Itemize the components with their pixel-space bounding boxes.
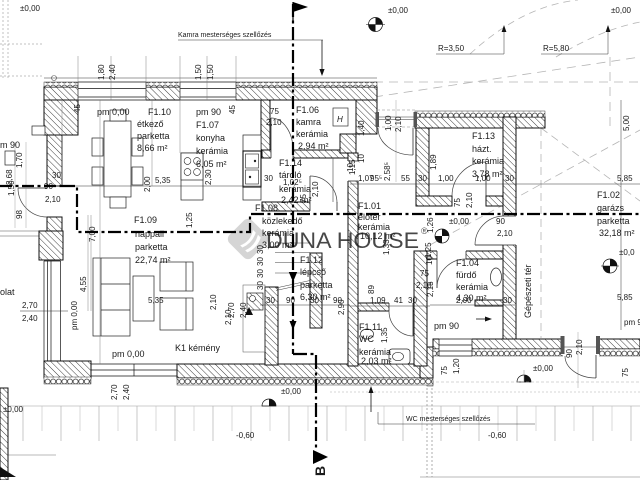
- dining table: [104, 121, 131, 197]
- svg-text:45: 45: [73, 104, 82, 113]
- svg-text:2,10: 2,10: [465, 192, 474, 208]
- svg-text:1,09: 1,09: [370, 296, 386, 305]
- svg-text:pm 90: pm 90: [196, 107, 221, 117]
- svg-text:90: 90: [496, 217, 505, 226]
- dining chair left 2: [92, 167, 103, 185]
- dotted level line right: [330, 391, 640, 393]
- south exterior wall (living/stairs/wc): [177, 364, 433, 385]
- vent duct end square: [427, 381, 433, 386]
- svg-text:1,07: 1,07: [358, 174, 374, 183]
- bathroom north wall: [427, 250, 503, 260]
- svg-text:2,10: 2,10: [266, 118, 282, 127]
- svg-text:±0,00: ±0,00: [3, 405, 24, 414]
- dining chair top: [110, 110, 126, 121]
- svg-text:2,10: 2,10: [497, 229, 513, 238]
- wc vent arrow: [369, 386, 374, 412]
- svg-text:2,58⁵: 2,58⁵: [383, 162, 392, 181]
- svg-text:lépcső: lépcső: [300, 267, 326, 277]
- svg-text:pm 0,00: pm 0,00: [112, 349, 145, 359]
- svg-text:±0,00: ±0,00: [533, 364, 554, 373]
- svg-text:90: 90: [565, 349, 574, 358]
- svg-text:WC: WC: [359, 334, 374, 344]
- plot boundary line bottom right: [420, 476, 640, 478]
- utility room door leaf: [485, 163, 487, 197]
- svg-text:1,40: 1,40: [357, 120, 366, 136]
- south wall corner step block: [420, 347, 433, 378]
- svg-text:olat: olat: [0, 287, 15, 297]
- svg-text:1,89: 1,89: [429, 154, 438, 170]
- svg-text:30: 30: [264, 174, 273, 183]
- kamra vent arrow: [319, 40, 324, 76]
- svg-text:75: 75: [420, 269, 429, 278]
- svg-text:75: 75: [453, 198, 462, 207]
- turning radius dashed arc R580: [556, 22, 640, 57]
- right edge dim line: [620, 100, 622, 330]
- svg-text:-0,60: -0,60: [236, 431, 255, 440]
- turning radius dashed arc R350: [470, 0, 578, 54]
- chimney arrow: [245, 307, 253, 315]
- south-west corner block: [44, 361, 91, 384]
- south exterior wall right section: [433, 338, 640, 357]
- utility room south wall left: [416, 196, 452, 206]
- dining chair left 1: [92, 138, 103, 156]
- room F1.02 garage: [597, 190, 635, 238]
- svg-text:pm 90: pm 90: [624, 318, 640, 327]
- dining chair right 1: [132, 138, 143, 156]
- svg-text:pm 90: pm 90: [434, 321, 459, 331]
- armchair 1: [160, 262, 193, 291]
- svg-text:parketta: parketta: [300, 280, 333, 290]
- svg-text:1,26: 1,26: [426, 217, 435, 233]
- west wall corner block: [39, 231, 63, 260]
- storeroom south wall: [262, 201, 337, 212]
- stairs east wall: [310, 253, 322, 328]
- mech room door leaf: [475, 244, 503, 246]
- svg-text:±0,0: ±0,0: [619, 248, 635, 257]
- svg-text:1,20: 1,20: [452, 358, 461, 374]
- stairs dim line: [260, 304, 350, 306]
- north window 2: [180, 82, 236, 100]
- south window living room: [91, 364, 177, 376]
- storeroom door leaf: [309, 176, 311, 202]
- level half marker south wall: [517, 375, 531, 382]
- chimney enclosure living room: [243, 285, 265, 352]
- bath entry arrow: [476, 317, 492, 322]
- armchair 2: [160, 298, 193, 330]
- svg-text:1,25: 1,25: [424, 242, 433, 258]
- stairs break line: [276, 281, 310, 289]
- svg-text:75: 75: [440, 366, 449, 375]
- svg-text:30: 30: [408, 296, 417, 305]
- chimney shaft H: [333, 108, 348, 126]
- svg-text:75: 75: [621, 368, 630, 377]
- wc vent underline: [378, 423, 535, 425]
- south door jambs right: [561, 336, 565, 354]
- svg-text:m 90: m 90: [0, 140, 20, 150]
- svg-text:F1.12: F1.12: [300, 255, 323, 265]
- chimney K1: [247, 293, 263, 310]
- svg-text:kamra: kamra: [296, 117, 321, 127]
- extension lines living: [62, 100, 180, 364]
- svg-text:konyha: konyha: [196, 133, 225, 143]
- svg-text:22,74 m²: 22,74 m²: [135, 255, 171, 265]
- svg-text:nappali: nappali: [135, 229, 164, 239]
- svg-text:2,10: 2,10: [45, 195, 61, 204]
- svg-text:1,80: 1,80: [97, 64, 106, 80]
- garage dashed vertical: [540, 128, 542, 338]
- svg-text:parketta: parketta: [135, 242, 168, 252]
- svg-text:3,78 m²: 3,78 m²: [472, 169, 503, 179]
- svg-text:kerámia: kerámia: [456, 282, 488, 292]
- svg-text:2,42 m²: 2,42 m²: [281, 195, 312, 205]
- wc vent leader: [377, 412, 379, 424]
- svg-text:2,03 m²: 2,03 m²: [361, 356, 392, 366]
- svg-text:6,30 m²: 6,30 m²: [300, 292, 331, 302]
- south window bathroom: [439, 339, 472, 356]
- room F1.13 utility: [472, 131, 504, 179]
- svg-text:5,35: 5,35: [155, 176, 171, 185]
- svg-text:30: 30: [418, 174, 427, 183]
- svg-text:10,12 m²: 10,12 m²: [360, 231, 396, 241]
- utility room south wall right: [486, 196, 516, 206]
- garage side door arc: [565, 356, 596, 378]
- garage dashed X diagonal 2: [541, 128, 640, 201]
- svg-text:1,25: 1,25: [185, 212, 194, 228]
- interior dim line 5,35: [62, 185, 261, 187]
- room F1.07 kitchen: [196, 107, 228, 169]
- section B direction arrow: [290, 321, 297, 330]
- storeroom door arc: [310, 176, 337, 203]
- entrance door arc: [378, 128, 413, 155]
- svg-text:2,10: 2,10: [575, 339, 584, 355]
- terrace door arc: [18, 188, 47, 217]
- driveway dashed diagonal: [374, 57, 640, 97]
- wc north wall: [358, 302, 414, 312]
- room F1.09 living: [134, 215, 171, 265]
- svg-text:F1.11: F1.11: [359, 322, 381, 332]
- bathroom south wall piece: [475, 300, 503, 306]
- svg-text:±0,00: ±0,00: [281, 387, 302, 396]
- room F1.01 hall: [358, 201, 396, 241]
- section A horizontal left: [0, 185, 62, 187]
- svg-text:2,30: 2,30: [204, 169, 213, 185]
- svg-text:garázs: garázs: [597, 203, 625, 213]
- svg-text:2,40: 2,40: [239, 302, 248, 318]
- room F1.06 pantry: [296, 105, 329, 151]
- north exterior wall band: [44, 81, 377, 101]
- entrance door leaf: [412, 128, 414, 155]
- mech room door arc: [475, 216, 503, 245]
- svg-text:H: H: [337, 115, 343, 124]
- pavement top line: [0, 405, 640, 407]
- dotted vent duct lines bottom: [426, 384, 428, 477]
- garage west wall: [502, 117, 517, 339]
- svg-text:F1.01: F1.01: [358, 201, 381, 211]
- section B bottom flag: [312, 450, 328, 476]
- bath-wc divider wall: [414, 251, 427, 366]
- garage side door leaf: [595, 355, 597, 378]
- north window 1: [78, 82, 146, 100]
- dining chair right 2: [132, 167, 143, 185]
- svg-text:75: 75: [270, 107, 279, 116]
- roof overhang dashed line top: [374, 81, 640, 83]
- level half marker pavement left: [262, 399, 276, 406]
- svg-text:10: 10: [357, 154, 366, 163]
- room F1.08 corridor: [255, 203, 303, 250]
- hall west wall: [347, 153, 359, 366]
- svg-text:30: 30: [256, 269, 265, 278]
- svg-text:41: 41: [394, 296, 403, 305]
- section A jog: [62, 186, 640, 232]
- radius line R580: [541, 29, 608, 54]
- svg-text:B: B: [312, 466, 328, 476]
- pantry door leaf: [270, 118, 272, 150]
- svg-text:±0,00: ±0,00: [20, 4, 41, 13]
- svg-text:2,15: 2,15: [426, 281, 435, 297]
- svg-text:2,70: 2,70: [110, 384, 119, 400]
- svg-text:F1.13: F1.13: [472, 131, 495, 141]
- svg-text:házt.: házt.: [472, 144, 492, 154]
- dashed vertical right of entrance: [609, 57, 611, 130]
- svg-text:F1.14: F1.14: [279, 158, 302, 168]
- plot boundary line bottom left: [0, 454, 56, 456]
- svg-text:1,50: 1,50: [7, 180, 16, 196]
- svg-text:2,00: 2,00: [143, 176, 152, 192]
- svg-text:1,33: 1,33: [382, 239, 391, 255]
- section B top flag: [293, 2, 308, 22]
- svg-text:Kamra mesterséges szellőzés: Kamra mesterséges szellőzés: [178, 32, 272, 39]
- svg-text:kerámia: kerámia: [279, 184, 311, 194]
- svg-text:5,35: 5,35: [148, 296, 164, 305]
- svg-text:pm 0,00: pm 0,00: [97, 107, 130, 117]
- utility room west wall: [416, 128, 429, 201]
- pantry door arc: [271, 118, 293, 150]
- svg-text:Gépészeti tér: Gépészeti tér: [523, 264, 533, 318]
- dim line left 2,70/2,40: [20, 310, 68, 312]
- garage north wall band: [415, 111, 545, 128]
- toilet: [389, 349, 410, 364]
- wc door arc: [389, 311, 413, 336]
- hob burners: [184, 158, 200, 176]
- terrace door leaf: [18, 187, 47, 189]
- svg-text:F1.06: F1.06: [296, 105, 319, 115]
- svg-text:F1.04: F1.04: [456, 258, 479, 268]
- south door threshold: [564, 346, 596, 348]
- svg-text:2,10: 2,10: [209, 294, 218, 310]
- svg-text:5,00: 5,00: [622, 115, 631, 131]
- svg-text:R=3,50: R=3,50: [438, 44, 465, 53]
- svg-text:parketta: parketta: [597, 216, 630, 226]
- level marker top: [366, 18, 385, 32]
- svg-text:F1.08: F1.08: [255, 203, 278, 213]
- boundary triangle bottom left: [0, 467, 16, 477]
- west wall between doors: [47, 217, 62, 231]
- kitchen counter with hob: [181, 153, 203, 200]
- svg-text:3,00 m²: 3,00 m²: [262, 240, 293, 250]
- room F1.14 storeroom: [279, 158, 312, 205]
- pantry south wall: [262, 149, 348, 159]
- svg-text:2,10: 2,10: [394, 116, 403, 132]
- level marker garage: [601, 259, 619, 273]
- section B jog bottom: [293, 354, 316, 450]
- svg-text:pm 0,00: pm 0,00: [70, 301, 79, 330]
- room F1.10 dining: [97, 107, 171, 153]
- svg-text:R=5,80: R=5,80: [543, 44, 570, 53]
- svg-text:30: 30: [266, 296, 275, 305]
- svg-text:1,50: 1,50: [206, 64, 215, 80]
- svg-text:kerámia: kerámia: [472, 156, 504, 166]
- svg-text:-0,60: -0,60: [488, 431, 507, 440]
- wc hand basin: [361, 329, 374, 339]
- svg-text:F1.09: F1.09: [134, 215, 157, 225]
- west wall corner big block: [44, 100, 78, 135]
- svg-text:7,00: 7,00: [88, 226, 97, 242]
- room F1.11 wc: [359, 322, 392, 366]
- svg-text:8,66 m²: 8,66 m²: [137, 143, 168, 153]
- svg-text:30: 30: [256, 257, 265, 266]
- svg-text:6,05 m²: 6,05 m²: [196, 159, 227, 169]
- pantry east exterior wall: [356, 100, 377, 134]
- entrance threshold: [376, 100, 418, 182]
- radius line R350: [436, 29, 504, 54]
- svg-text:WC mesterséges szellőzés: WC mesterséges szellőzés: [406, 416, 491, 423]
- svg-text:F1.10: F1.10: [148, 107, 171, 117]
- watermark: [225, 216, 428, 261]
- svg-text:98: 98: [15, 210, 24, 219]
- bath bottom dims: [430, 304, 515, 306]
- bathroom door leaf: [436, 259, 438, 288]
- svg-text:5,85: 5,85: [617, 293, 633, 302]
- svg-text:±0,00: ±0,00: [388, 6, 409, 15]
- svg-text:4,55: 4,55: [79, 276, 88, 292]
- room F1.12 stairs: [300, 255, 333, 302]
- svg-text:parketta: parketta: [137, 131, 170, 141]
- terrace edge lines left: [0, 230, 40, 232]
- svg-text:2,40: 2,40: [122, 384, 131, 400]
- svg-text:kerámia: kerámia: [196, 146, 228, 156]
- svg-text:32,18 m²: 32,18 m²: [599, 228, 635, 238]
- svg-text:55: 55: [401, 174, 410, 183]
- svg-text:5,85: 5,85: [617, 174, 633, 183]
- terrace fixture circle: [52, 76, 57, 81]
- svg-text:1,00: 1,00: [384, 115, 393, 131]
- svg-text:2,10: 2,10: [311, 181, 320, 197]
- stairs treads: [275, 243, 310, 273]
- utility room door arc: [452, 162, 486, 196]
- section B direction arrow upper: [289, 272, 297, 282]
- svg-text:fürdő: fürdő: [456, 270, 477, 280]
- svg-text:45: 45: [228, 105, 237, 114]
- west wall upper: [47, 135, 62, 186]
- svg-text:±0,00: ±0,00: [449, 217, 470, 226]
- terrace dim extension lines: [14, 142, 16, 228]
- pavement joint ticks: [23, 406, 631, 441]
- svg-text:±0,00: ±0,00: [611, 6, 632, 15]
- svg-text:30: 30: [505, 174, 514, 183]
- kitchen-pantry wall: [261, 100, 270, 158]
- svg-text:4,30 m²: 4,30 m²: [456, 293, 487, 303]
- svg-text:10: 10: [346, 163, 355, 172]
- svg-text:2,70: 2,70: [22, 301, 38, 310]
- svg-text:1,50: 1,50: [194, 64, 203, 80]
- svg-text:89: 89: [367, 285, 376, 294]
- svg-text:30: 30: [52, 171, 61, 180]
- wc door leaf: [412, 311, 414, 336]
- stairs west wall: [265, 287, 278, 365]
- west window living room: [44, 261, 61, 361]
- level marker hall: [435, 229, 449, 243]
- top dim line: [44, 77, 377, 79]
- svg-text:1,00: 1,00: [438, 174, 454, 183]
- level line south: [436, 381, 640, 383]
- room F1.04 bath: [456, 258, 488, 303]
- extension x152: [151, 100, 153, 186]
- sofa: [93, 258, 130, 336]
- section B vertical top: [292, 4, 294, 354]
- storeroom east jamb line: [332, 158, 334, 202]
- svg-text:tároló: tároló: [279, 170, 302, 180]
- svg-text:10: 10: [425, 256, 434, 265]
- svg-text:30: 30: [256, 281, 265, 290]
- svg-text:2,94 m²: 2,94 m²: [298, 141, 329, 151]
- neighbour wall hatch bottom left: [0, 388, 8, 480]
- kitchen sink unit: [243, 135, 261, 200]
- neighbour dotted outline top left: [0, 0, 44, 80]
- svg-text:étkező: étkező: [137, 119, 164, 129]
- svg-text:2,40: 2,40: [22, 314, 38, 323]
- wc dim row: [350, 305, 430, 307]
- svg-text:2,10: 2,10: [224, 309, 233, 325]
- dining chair bottom: [110, 197, 126, 208]
- bathroom door arc: [437, 259, 466, 288]
- top dim extension lines: [78, 56, 236, 100]
- terrace fixture 1: [5, 151, 15, 165]
- svg-text:F1.07: F1.07: [196, 120, 219, 130]
- svg-text:1,70: 1,70: [15, 152, 24, 168]
- svg-text:kerámia: kerámia: [296, 129, 328, 139]
- kamra vent underline: [178, 39, 323, 41]
- svg-text:F1.02: F1.02: [597, 190, 620, 200]
- coffee table: [133, 276, 154, 321]
- svg-text:2,40: 2,40: [108, 64, 117, 80]
- svg-text:K1 kémény: K1 kémény: [175, 343, 221, 353]
- terrace fixture 2: [32, 126, 45, 135]
- right dim line row: [350, 183, 640, 185]
- svg-text:30: 30: [503, 296, 512, 305]
- bath basin: [491, 268, 502, 286]
- pantry jog block: [340, 134, 356, 153]
- svg-text:2,90: 2,90: [337, 299, 346, 315]
- svg-text:kerámia: kerámia: [262, 228, 294, 238]
- garage dashed X diagonal 1: [430, 130, 640, 245]
- svg-text:közlekedő: közlekedő: [262, 216, 303, 226]
